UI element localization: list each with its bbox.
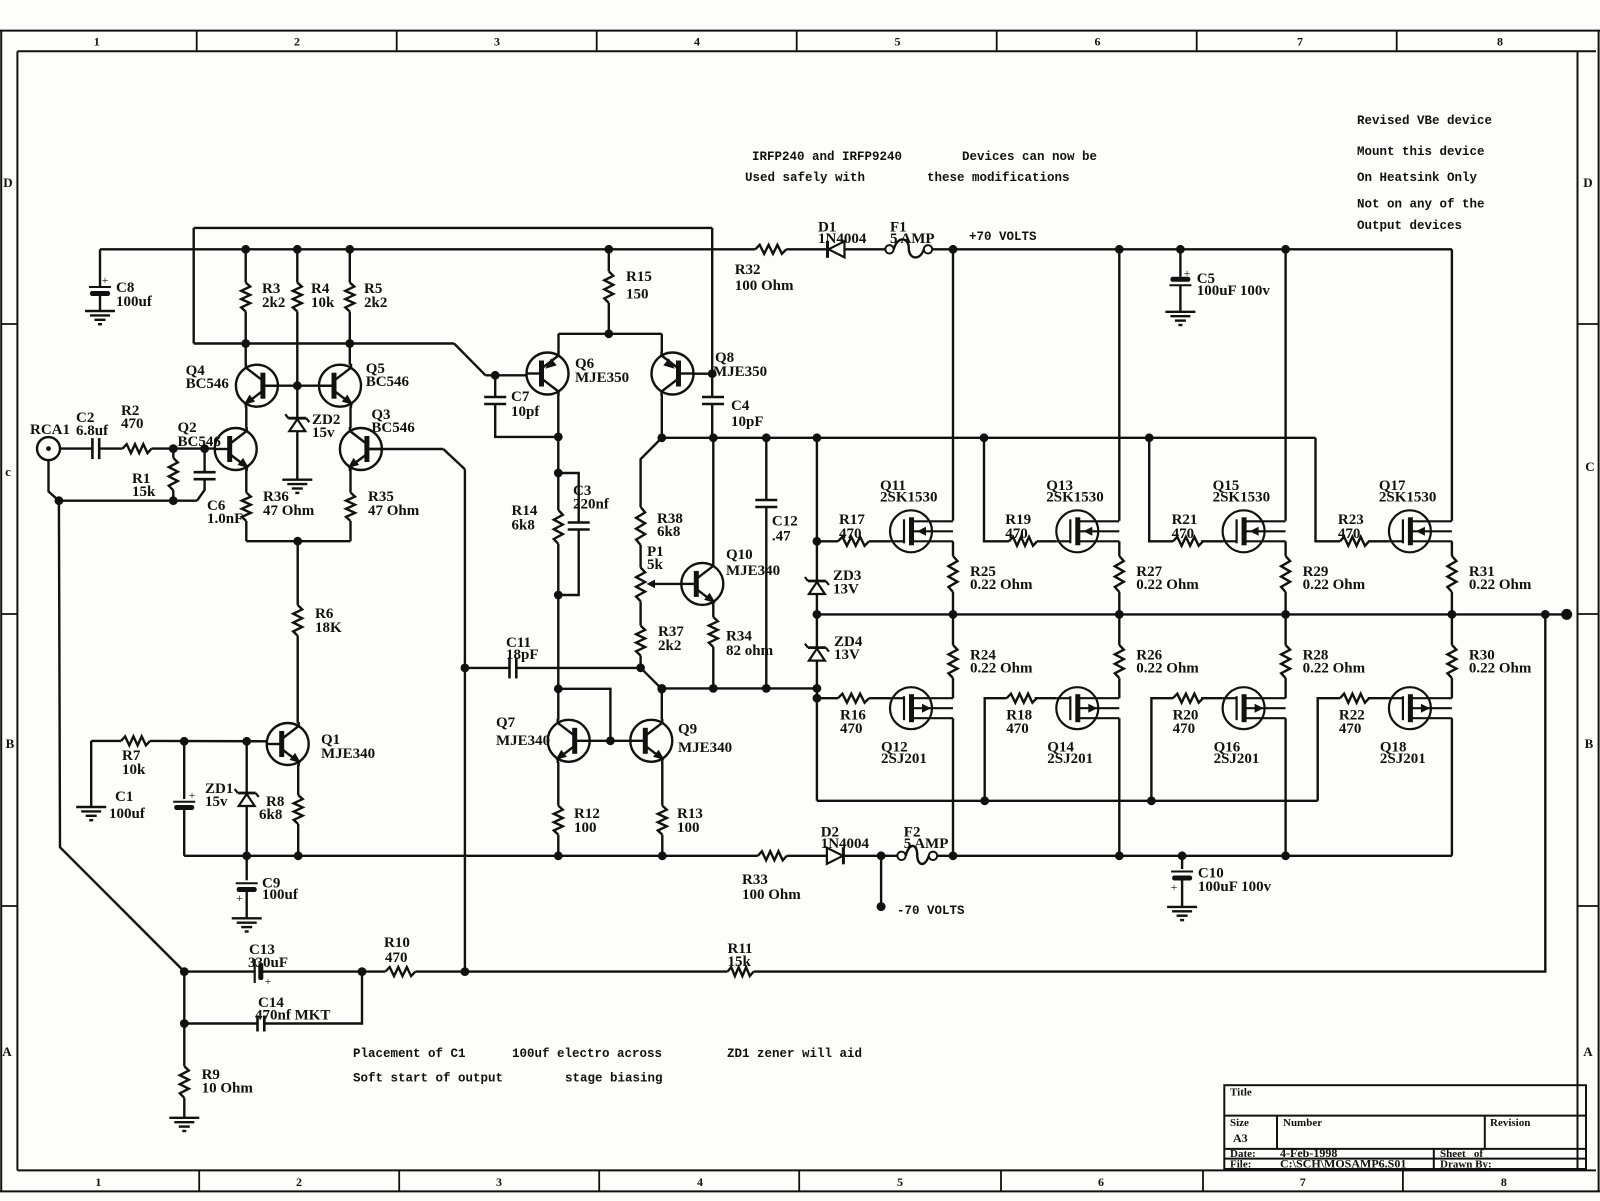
svg-text:470: 470 (1338, 526, 1361, 542)
svg-text:5: 5 (897, 1175, 903, 1189)
svg-text:these modifications: these modifications (927, 171, 1070, 185)
resistor R8 (294, 795, 303, 824)
resistor R35 (346, 493, 355, 522)
wire to ZD1 (245, 741, 247, 793)
junction (662,438) (657, 433, 666, 442)
svg-text:6k8: 6k8 (512, 518, 535, 534)
wire R29 to output rail (1284, 592, 1286, 614)
junction (173,449) (169, 444, 178, 453)
resistor R29 (1281, 556, 1290, 592)
wire into Q8 emitter (661, 334, 663, 353)
svg-text:100uf: 100uf (109, 806, 146, 822)
svg-text:470: 470 (839, 526, 862, 542)
svg-text:2: 2 (294, 35, 300, 49)
wire ZD1 bottom (245, 806, 247, 856)
wire VAS lower node rail (662, 687, 817, 689)
svg-text:R32: R32 (735, 262, 761, 278)
capacitor C2 (91, 438, 94, 459)
junction (953,856) (949, 851, 958, 860)
svg-text:10pF: 10pF (731, 414, 764, 430)
svg-text:Devices can now be: Devices can now be (962, 150, 1097, 164)
svg-text:2SK1530: 2SK1530 (1379, 490, 1437, 506)
potentiometer P1 (636, 568, 645, 602)
wire to R16 (817, 697, 838, 699)
svg-text:MJE350: MJE350 (713, 364, 767, 380)
svg-text:13V: 13V (833, 582, 859, 598)
wire R16 to gate (lower row) (869, 697, 890, 699)
wire R7 to Q1 base (150, 740, 267, 743)
svg-text:RCA1: RCA1 (30, 422, 70, 438)
wire +70 front-end rail left of R32 (100, 248, 755, 250)
wire Q8 base (692, 373, 712, 375)
svg-text:BC546: BC546 (186, 376, 230, 392)
wire C2 to R2 (100, 447, 123, 449)
title block (1224, 1085, 1586, 1169)
svg-text:1: 1 (95, 1175, 101, 1189)
transistor Q2 (215, 427, 257, 471)
wire C14 right loop (264, 972, 362, 1024)
svg-text:C7: C7 (511, 389, 530, 405)
svg-text:5: 5 (895, 35, 901, 49)
wire Q7 collector jog to bases (558, 689, 610, 741)
diode D2 (827, 848, 843, 864)
wire top loop rail (194, 227, 713, 229)
svg-text:6k8: 6k8 (657, 524, 680, 540)
resistor R19 (1009, 537, 1037, 546)
wire NFB to C11 (465, 667, 510, 669)
wire C4 to drive rail (711, 404, 713, 438)
svg-text:100uf: 100uf (116, 294, 153, 310)
svg-text:7: 7 (1300, 1175, 1306, 1189)
junction (766,438) (762, 433, 771, 442)
resistor R32 (755, 245, 786, 254)
junction (205,449) (200, 444, 209, 453)
svg-text:0.22 Ohm: 0.22 Ohm (970, 577, 1033, 593)
wire C7 bottom to Q6 collector line (495, 404, 558, 437)
wire FET source column to -70 rail 2 (1284, 718, 1286, 856)
svg-text:2k2: 2k2 (658, 638, 681, 654)
svg-text:Q9: Q9 (678, 722, 697, 738)
svg-text:2SK1530: 2SK1530 (1213, 490, 1271, 506)
wire down to Q7 collector (557, 595, 559, 720)
svg-text:B: B (1585, 736, 1594, 751)
node Q1 collector (297, 722, 299, 724)
svg-text:Number: Number (1283, 1117, 1322, 1129)
zener ZD3 (808, 580, 826, 583)
svg-text:470: 470 (385, 950, 408, 966)
fuse F1 (885, 245, 893, 253)
capacitor C12 (755, 499, 777, 502)
svg-text:470: 470 (121, 416, 144, 432)
wire Q3 base (367, 448, 443, 450)
junction (713,438) (709, 433, 718, 442)
svg-text:2k2: 2k2 (364, 295, 387, 311)
resistor R28 (1281, 645, 1290, 678)
resistor R20 (1173, 694, 1203, 703)
svg-text:Revision: Revision (1490, 1117, 1530, 1129)
transistor Q3 (340, 427, 382, 471)
wire R38 to P1 (639, 545, 641, 568)
wire down to C14 branch (183, 972, 185, 1024)
junction (246,249) (241, 245, 250, 254)
svg-text:C4: C4 (731, 398, 750, 414)
junction (641,668) (636, 663, 645, 672)
junction (881,856) (877, 851, 886, 860)
capacitor C5 (1170, 277, 1190, 282)
wire to R9 (183, 1024, 185, 1067)
svg-text:4: 4 (694, 35, 700, 49)
svg-text:0.22 Ohm: 0.22 Ohm (1303, 661, 1366, 677)
svg-text:ZD1 zener will aid: ZD1 zener will aid (727, 1047, 862, 1061)
ground R7 (76, 806, 106, 808)
wire RCA1 to C2 (60, 447, 92, 449)
wire C13 to R10 (261, 970, 386, 972)
resistor R7 (121, 736, 150, 745)
resistor R30 (1447, 645, 1456, 678)
wire R30 to FET top stub (1451, 678, 1453, 698)
wire P1 wiper to Q10 base (653, 583, 681, 585)
svg-text:Q7: Q7 (496, 715, 516, 731)
resistor R25 (949, 556, 958, 592)
wire R33 to D2 (787, 855, 827, 857)
svg-text:5k: 5k (647, 557, 664, 573)
svg-text:C1: C1 (115, 789, 133, 805)
svg-text:2SJ201: 2SJ201 (1047, 751, 1093, 767)
svg-text:470nf MKT: 470nf MKT (255, 1008, 330, 1024)
junction (362,972) (358, 967, 367, 976)
wire Q7 base to Q9 base (590, 740, 631, 742)
wire RCA1 ground drop (49, 460, 59, 501)
wire rail to R5 (349, 249, 351, 282)
junction (953,249) (949, 245, 958, 254)
wire NFB vertical (464, 469, 466, 971)
junction (247,741) (242, 737, 251, 746)
svg-text:470: 470 (1006, 721, 1029, 737)
capacitor C7 (484, 396, 506, 399)
wire Q9 emitter to R13 (661, 762, 663, 806)
svg-text:MJE340: MJE340 (726, 563, 780, 579)
svg-text:R10: R10 (384, 935, 410, 951)
wire C3 top branch (558, 473, 578, 523)
wire D2 to F2 (844, 855, 897, 857)
svg-text:MJE340: MJE340 (678, 740, 732, 756)
wire Q4 emitter to Q2 collector (245, 407, 247, 428)
wire R35 to tail (349, 521, 351, 541)
wire input ground return (59, 500, 197, 502)
junction (247,856) (242, 851, 251, 860)
wire R25 to output rail (952, 592, 954, 614)
junction (350,344) (345, 339, 354, 348)
svg-text:1: 1 (94, 35, 100, 49)
wire lower rail to R18 (985, 698, 1007, 801)
svg-text:+70 VOLTS: +70 VOLTS (969, 230, 1037, 244)
wire ZD4 down to lower gate rail (816, 661, 818, 801)
junction (766,688) (762, 684, 771, 693)
svg-text:Size: Size (1230, 1117, 1249, 1129)
svg-text:R15: R15 (626, 269, 652, 285)
svg-text:Soft start of output: Soft start of output (353, 1072, 503, 1086)
resistor R9 (180, 1066, 189, 1098)
junction (1286,249) (1281, 245, 1290, 254)
svg-text:0.22 Ohm: 0.22 Ohm (1469, 577, 1532, 593)
svg-text:5 AMP: 5 AMP (904, 836, 949, 852)
resistor R22 (1340, 694, 1369, 703)
svg-text:2SK1530: 2SK1530 (880, 490, 938, 506)
junction (1452,614) (1448, 610, 1457, 619)
wire FET source column to -70 rail 0 (952, 718, 954, 856)
wire to C9 (245, 856, 247, 881)
svg-text:Title: Title (1230, 1087, 1252, 1099)
junction (609,334) (604, 329, 613, 338)
svg-text:MJE340: MJE340 (496, 733, 550, 749)
resistor R4 (293, 283, 302, 312)
svg-text:BC546: BC546 (178, 434, 222, 450)
svg-text:100: 100 (574, 820, 597, 836)
wire rail to R3 (244, 249, 246, 282)
junction (1180,249) (1176, 245, 1185, 254)
transistor Q5 (319, 364, 361, 408)
wire NFB node to C13 (184, 970, 254, 972)
junction (817,438) (813, 433, 822, 442)
wire output rail to R24 (952, 614, 954, 645)
resistor R6 (293, 605, 302, 636)
ground C5 (1165, 311, 1195, 313)
junction (298,541) (293, 537, 302, 546)
connector RCA1 (37, 437, 60, 460)
transistor Q17 (1389, 510, 1452, 552)
resistor R12 (554, 806, 563, 835)
resistor R34 (709, 617, 718, 647)
wire gate resistor to gate (upper 3) (1368, 540, 1389, 542)
wire Q4 base to Q5 base (263, 385, 334, 387)
junction (1545,614) (1541, 610, 1550, 619)
wire drive rail to R21 (1149, 438, 1173, 542)
transistor Q12 (890, 687, 953, 729)
capacitor C14 (256, 1016, 259, 1032)
svg-text:15v: 15v (205, 794, 228, 810)
wire R3 to Q4 collector (244, 312, 246, 365)
svg-text:0.22 Ohm: 0.22 Ohm (1303, 577, 1366, 593)
wire R37 bottom (639, 656, 641, 668)
svg-text:+: + (1184, 266, 1191, 280)
junction (662,688) (657, 684, 666, 693)
wire drain column upper 0 (952, 249, 954, 521)
svg-text:C12: C12 (772, 514, 798, 530)
ground ZD2 (282, 479, 312, 481)
junction (495,375) (491, 371, 500, 380)
capacitor C13 (254, 959, 256, 983)
resistor R16 (838, 694, 869, 703)
junction (1149,438) (1145, 433, 1154, 442)
wire C11 to R37 node (516, 667, 640, 669)
capacitor C9 (236, 882, 258, 884)
svg-text:10k: 10k (122, 762, 146, 778)
wire LTP tail (246, 540, 350, 542)
resistor R15 (604, 271, 613, 303)
resistor R37 (636, 626, 645, 656)
junction (609,249) (604, 245, 613, 254)
svg-text:18pF: 18pF (506, 647, 539, 663)
wire gate resistor to gate (upper 2) (1201, 540, 1223, 542)
svg-text:D: D (3, 175, 12, 190)
junction (558,595) (554, 591, 563, 600)
svg-text:1N4004: 1N4004 (821, 836, 870, 852)
resistor R1 (169, 458, 178, 491)
resistor R21 (1173, 537, 1203, 546)
svg-text:Not on any of the: Not on any of the (1357, 198, 1485, 212)
junction (184,741) (180, 737, 189, 746)
svg-text:Used safely with: Used safely with (745, 171, 865, 185)
wire to R1 top (172, 449, 174, 458)
svg-text:100: 100 (677, 820, 700, 836)
transistor Q9 (630, 719, 672, 763)
resistor R31 (1447, 556, 1456, 592)
wire source to R31 (1451, 541, 1453, 556)
svg-text:BC546: BC546 (366, 374, 410, 390)
wire R13 bottom (661, 835, 663, 856)
wire C10 to ground (1181, 878, 1183, 907)
svg-text:15v: 15v (312, 425, 335, 441)
junction (350,249) (345, 245, 354, 254)
junction (1119,614) (1115, 610, 1124, 619)
wire source to R27 (1118, 541, 1120, 556)
wire gate resistor to gate (lower 2) (1201, 697, 1223, 699)
svg-text:4: 4 (697, 1175, 703, 1189)
junction (297,386) (293, 381, 302, 390)
wire LTP collector line (194, 342, 454, 344)
resistor R27 (1115, 556, 1124, 592)
zener ZD1 (238, 792, 256, 795)
wire R4 to base line (296, 312, 298, 386)
wire diagonal to Q6 base (454, 344, 485, 376)
wire R12 bottom (557, 835, 559, 856)
fuse F2 (897, 852, 905, 860)
svg-text:18K: 18K (315, 620, 342, 636)
svg-text:6: 6 (1095, 35, 1101, 49)
svg-text:MJE340: MJE340 (321, 746, 375, 762)
resistor R11 (728, 967, 754, 976)
svg-text:470: 470 (1173, 721, 1196, 737)
wire D1 to F1 (845, 248, 885, 250)
junction (465,972) (461, 967, 470, 976)
wire drain column upper 2 (1284, 249, 1286, 521)
resistor R26 (1115, 645, 1124, 678)
wire rail to C5 (1179, 249, 1181, 276)
wire C14 left (184, 1022, 257, 1024)
resistor R17 (838, 537, 869, 546)
wire source to R29 (1284, 541, 1286, 556)
node -70 VOLTS stub (877, 902, 886, 911)
svg-text:Drawn By:: Drawn By: (1440, 1159, 1492, 1171)
wire drive rail corner to R23 (1316, 438, 1341, 542)
svg-text:6k8: 6k8 (259, 807, 282, 823)
capacitor C11 (508, 657, 511, 678)
ground C9 (232, 917, 262, 919)
wire C5 to ground (1179, 285, 1181, 312)
svg-text:470: 470 (1339, 721, 1362, 737)
svg-text:8: 8 (1501, 1175, 1507, 1189)
transistor Q16 (1223, 687, 1286, 729)
resistor R23 (1340, 537, 1369, 546)
wire output rail to R26 (1118, 614, 1120, 645)
svg-text:Q10: Q10 (726, 547, 753, 563)
wire lower rail to R20 (1151, 698, 1173, 801)
svg-text:0.22 Ohm: 0.22 Ohm (1469, 661, 1532, 677)
wire output stub (1545, 613, 1566, 615)
junction (713,688) (709, 684, 718, 693)
wire C9 to ground (245, 890, 247, 919)
capacitor C3 (568, 521, 590, 524)
svg-text:100uf: 100uf (262, 887, 299, 903)
wire ZD3 to ZD4 (816, 594, 818, 648)
wire drain column upper 3 (1451, 249, 1453, 521)
wire Q3 emitter to R35 (349, 468, 351, 493)
wire R7 left (91, 740, 121, 742)
svg-text:IRFP240 and IRFP9240: IRFP240 and IRFP9240 (752, 150, 902, 164)
svg-text:C:\SCH\MOSAMP6.S01: C:\SCH\MOSAMP6.S01 (1280, 1157, 1406, 1171)
svg-text:0.22 Ohm: 0.22 Ohm (1136, 577, 1199, 593)
svg-text:15k: 15k (728, 954, 752, 970)
wire R27 to output rail (1118, 592, 1120, 614)
wire lower rail corner to R22 (1318, 698, 1340, 801)
resistor R14 (554, 510, 563, 544)
resistor R33 (758, 851, 787, 860)
resistor R13 (658, 806, 667, 835)
junction (662,689) (657, 685, 666, 694)
zener ZD4 (808, 646, 826, 649)
resistor R24 (949, 645, 958, 678)
svg-text:-70 VOLTS: -70 VOLTS (897, 904, 965, 918)
junction (985,801) (980, 796, 989, 805)
transistor Q7 (548, 719, 590, 763)
wire output rail (817, 613, 1545, 615)
svg-text:+: + (102, 273, 109, 287)
junction (1151,801) (1147, 796, 1156, 805)
junction (817,541) (813, 537, 822, 546)
wire +70 VOLTS rail (932, 248, 1452, 250)
svg-text:220nf: 220nf (573, 497, 610, 513)
junction (173,501) (169, 496, 178, 505)
resistor R5 (345, 283, 354, 312)
svg-text:47 Ohm: 47 Ohm (368, 503, 420, 519)
svg-text:100 Ohm: 100 Ohm (735, 278, 794, 294)
wire -70 stub (880, 856, 882, 907)
junction (246,344) (241, 339, 250, 348)
wire output rail to R30 (1451, 614, 1453, 645)
junction (1119,249) (1115, 245, 1124, 254)
svg-text:c: c (5, 464, 11, 479)
wire drive rail ZD3 drop (816, 438, 818, 581)
svg-text:330uF: 330uF (248, 955, 288, 971)
svg-text:10k: 10k (311, 295, 335, 311)
transistor Q11 (890, 510, 953, 552)
svg-text:C: C (1585, 459, 1594, 474)
junction (184,1024) (180, 1019, 189, 1028)
svg-text:Mount this device: Mount this device (1357, 145, 1485, 159)
wire R8 bottom (297, 824, 299, 856)
junction (1119,856) (1115, 851, 1124, 860)
wire FET source column to -70 rail 3 (1451, 718, 1453, 856)
wire -70 VOLTS rail (937, 855, 1452, 857)
wire C6 bottom bend (197, 479, 205, 501)
wire R6 to Q1 collector (297, 636, 299, 723)
svg-text:+: + (265, 974, 272, 988)
zener ZD2 (288, 417, 306, 420)
ground C10 (1167, 906, 1197, 908)
capacitor C6 (194, 471, 216, 474)
junction (558,437) (554, 433, 563, 442)
capacitor C10 (1171, 871, 1193, 873)
